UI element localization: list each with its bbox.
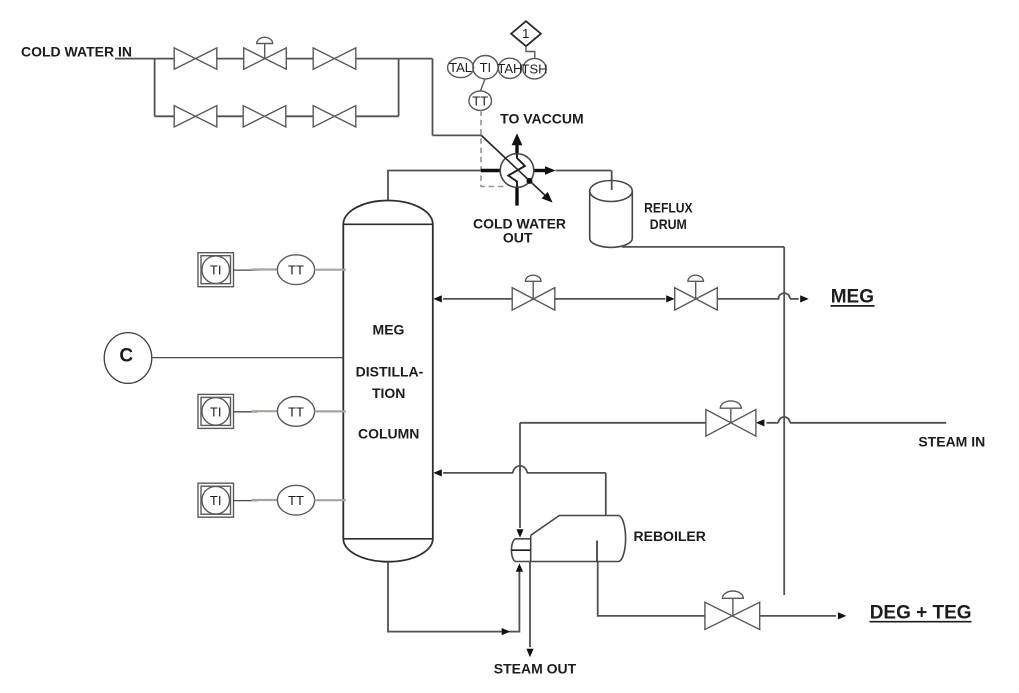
svg-text:COLD WATER IN: COLD WATER IN [21,44,132,60]
wire condenser to reflux drum [556,171,612,191]
control valve CV2 [512,288,555,310]
condenser E1 right stub [534,169,546,172]
distillation column C1 [343,201,433,562]
svg-text:COLUMN: COLUMN [358,425,419,441]
svg-text:TAL: TAL [449,60,472,75]
actuator CV5 [722,591,743,616]
cold water diagonal line [481,135,545,195]
arrow into CV3 [666,295,675,302]
svg-text:TI: TI [480,60,492,75]
dashed signal line [481,110,505,186]
svg-text:C: C [119,346,133,367]
svg-text:DISTILLA-: DISTILLA- [356,364,424,380]
arrow cold water out [542,192,553,203]
condenser E1 shell [500,154,534,188]
arrow to vaccum [512,133,523,145]
arrow into CV4 [756,419,765,426]
wire TT-1 to column [315,269,346,271]
svg-text:TO VACCUM: TO VACCUM [500,110,583,126]
wire C to column [152,357,343,359]
wire diamond to TSH [526,46,535,58]
svg-text:STEAM OUT: STEAM OUT [494,660,577,676]
instrument C [104,333,152,384]
wire MEG line mid [555,298,666,300]
svg-text:TI: TI [210,404,222,419]
condenser E1 bottom stub [515,187,518,206]
instrument TI-1 box [198,253,234,287]
wire MEG line with crossover [717,293,799,299]
arrow bottoms flow [502,628,511,635]
valve HV4 [243,106,286,127]
svg-text:TI: TI [210,263,222,278]
valve HV2 [313,48,356,69]
wire DEG product line [760,615,836,617]
valve HV1 [174,48,217,69]
svg-text:TSH: TSH [522,61,548,76]
wire branch rejoin [398,59,400,117]
svg-text:TT: TT [472,93,488,108]
actuator CV3 [688,275,704,299]
arrow condenser outlet [545,166,556,174]
svg-text:MEG: MEG [373,322,405,338]
wire reboiler bottoms to DEG valve [598,562,705,616]
reflux drum V2 [590,191,633,247]
wire branch split [154,59,156,117]
svg-text:1: 1 [522,26,529,41]
actuator CV4 [720,401,741,423]
wire lower branch [155,115,399,117]
instrument bubble TAH [498,58,521,78]
instrument bubble TI [473,55,498,78]
instrument TI-2 box [198,394,234,428]
svg-text:OUT: OUT [503,230,533,246]
svg-text:REBOILER: REBOILER [634,528,706,544]
instrument TI-3 box [198,483,234,517]
svg-text:TT: TT [288,263,304,278]
instrument TT-1 [277,255,314,285]
wire TT-3 to column [315,499,346,501]
valve HV5 [313,106,356,127]
instrument TT-3 [277,485,314,515]
wire TI-3 to TT-3 [234,500,258,502]
svg-text:TION: TION [372,385,405,401]
svg-text:DEG + TEG: DEG + TEG [870,602,972,623]
interlock diamond 1 [511,21,541,46]
wire TI-2 to TT-2 [234,411,258,413]
reboiler E2 channel head [511,535,530,561]
wire column top to condenser [388,171,481,201]
arrow vapor into column [433,469,442,476]
actuator CV2 [525,275,541,299]
wire cold water header top branch [115,59,481,136]
wire TI to TT [480,79,485,91]
arrow steam into reboiler [516,529,523,538]
reboiler E2 head divider [512,549,531,551]
control valve CV1 [244,48,287,69]
instrument bubble TSH [523,58,546,78]
instrument bubble TT [469,91,492,110]
control valve CV3 [675,288,718,310]
wire column bottoms to reboiler [388,562,519,632]
reboiler E2 shell [516,516,625,562]
reboiler E2 weir [596,541,598,562]
arrow steam out [526,649,533,658]
svg-text:TT: TT [288,404,304,419]
wire TT-2 to column [315,410,346,412]
wire steam in line [767,417,947,423]
wire steam to reboiler [520,423,706,528]
condenser E1 coil [508,154,525,187]
svg-text:TI: TI [210,493,222,508]
condenser E1 left stub [481,169,501,172]
svg-text:DRUM: DRUM [650,216,687,232]
instrument TT-2 [277,397,314,427]
wire drum bottoms header [622,246,785,248]
svg-text:STEAM IN: STEAM IN [918,433,985,449]
arrow DEG product [838,612,847,619]
svg-text:TAH: TAH [497,61,522,76]
actuator CV1 [257,37,273,58]
arrow bottoms into reboiler [516,563,523,572]
instrument bubble TAL [448,58,474,78]
wire reflux line [443,298,512,300]
svg-text:MEG: MEG [831,287,874,308]
junction dot on condenser [526,178,532,184]
arrow MEG product [800,295,809,302]
control valve CV5 [705,602,760,629]
condenser E1 top stub [515,145,518,154]
wire TI-1 to TT-1 [234,269,258,271]
arrow reflux into column [433,295,442,302]
wire reboiler vapor return [443,466,606,516]
svg-text:TT: TT [288,493,304,508]
valve HV3 [174,106,217,127]
svg-text:REFLUX: REFLUX [644,200,693,216]
control valve CV4 [706,410,756,437]
wire steam out [529,562,531,648]
wire recycle vertical [783,247,785,595]
